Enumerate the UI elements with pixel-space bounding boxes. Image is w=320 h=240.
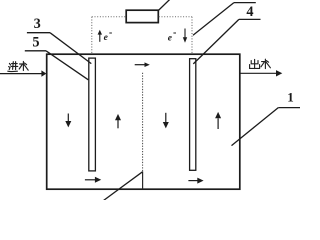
arrow e- down (right wire) [183, 29, 187, 43]
flow arrow right (under right electrode, bottom) [188, 178, 203, 184]
baffle (vertical partition, bottom label) [142, 73, 144, 190]
text 出水 (water out) [250, 59, 271, 68]
flow arrow right (under left electrode, bottom) [85, 177, 101, 183]
flow arrow right (over baffle, top) [135, 62, 150, 67]
label e- (right) [168, 33, 176, 44]
svg-text:e: e [168, 34, 173, 44]
svg-text:3: 3 [34, 16, 41, 32]
leader to baffle (label cut off at bottom) [104, 172, 143, 201]
electrode E-left (anode, labels 3/5) [89, 58, 96, 171]
leader line to right wire (label cut off at top) [193, 3, 256, 36]
label 1 with leader to tank wall [232, 89, 301, 145]
wire (dotted, left: power box to left electrode) [92, 17, 126, 54]
wire (dotted, right: power box to right electrode) [159, 17, 192, 54]
label 5 with leader to left electrode side [25, 35, 89, 80]
arrow e- up (left wire) [98, 30, 102, 42]
flow arrow up (compartment 2) [115, 114, 121, 128]
svg-text:1: 1 [287, 89, 294, 104]
power supply box U1 [126, 10, 158, 22]
flow arrow down (compartment 1) [65, 114, 71, 128]
svg-text:5: 5 [32, 35, 39, 51]
flow arrow up (compartment 4) [215, 112, 221, 129]
flow arrow down (compartment 3) [163, 113, 169, 129]
inlet arrow (进水) [0, 70, 46, 76]
svg-text:e: e [104, 33, 109, 43]
label 3 with leader to left electrode top [27, 16, 91, 64]
label e- (left) [104, 33, 112, 43]
tank T1 (reaction cell body, label 1) [47, 54, 240, 189]
label 4 with leader to right electrode [193, 4, 260, 64]
text 进水 (water in) [8, 62, 28, 72]
electrode E-right (cathode, label 4) [190, 59, 196, 171]
svg-text:4: 4 [246, 4, 253, 20]
leader line from power box (label cut off at top) [158, 0, 170, 11]
outlet arrow (出水) [241, 70, 283, 76]
